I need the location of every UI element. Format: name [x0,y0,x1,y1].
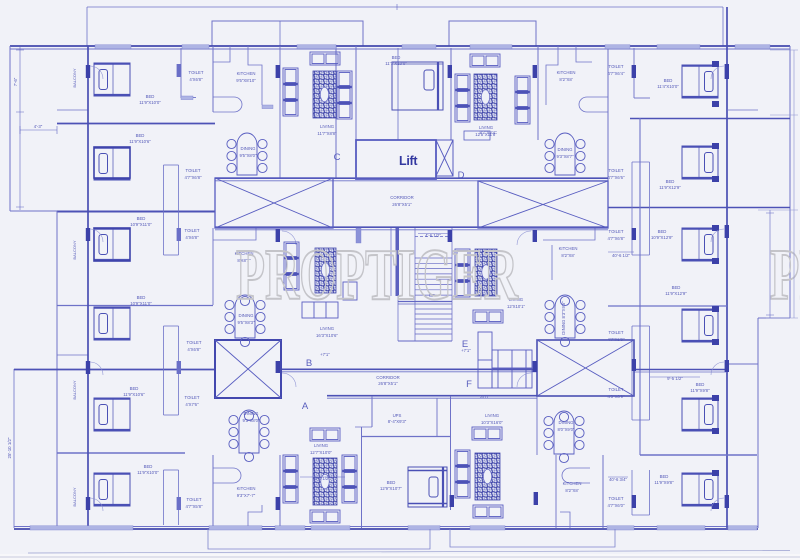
svg-text:CORRIDOR: CORRIDOR [376,375,399,380]
svg-text:9'5"X8'3": 9'5"X8'3" [237,320,255,325]
svg-text:TOILET: TOILET [186,168,201,173]
svg-text:16'3"X10'6": 16'3"X10'6" [316,333,338,338]
svg-text:11'9"X12'9": 11'9"X12'9" [665,291,687,296]
svg-text:D: D [458,170,465,181]
svg-text:TOILET: TOILET [185,228,200,233]
svg-text:4'X6'8": 4'X6'8" [185,235,199,240]
svg-text:BED: BED [136,133,145,138]
svg-text:BED: BED [130,386,139,391]
svg-text:11'9"X10'6": 11'9"X10'6" [123,392,145,397]
svg-text:4'X7'6": 4'X7'6" [185,402,199,407]
svg-text:4'3"X6'9": 4'3"X6'9" [607,394,625,399]
svg-text:40'-6 1/2": 40'-6 1/2" [612,253,631,258]
svg-text:+7'1": +7'1" [320,352,330,357]
svg-text:11'7"X8'8": 11'7"X8'8" [317,131,337,136]
svg-text:4'-3": 4'-3" [34,124,43,129]
svg-text:BED: BED [660,474,669,479]
svg-text:11'9"X10'6": 11'9"X10'6" [129,139,151,144]
svg-text:KITCHEN: KITCHEN [557,70,576,75]
svg-text:BED: BED [144,464,153,469]
svg-text:9'3"X8'0": 9'3"X8'0" [242,418,260,423]
svg-text:B: B [306,358,312,369]
svg-text:4'7"X6'4": 4'7"X6'4" [607,71,625,76]
svg-text:DINING 8'3"X9'5": DINING 8'3"X9'5" [561,301,566,335]
svg-text:8'2"X8': 8'2"X8' [561,253,574,258]
svg-text:4'7"X6'0": 4'7"X6'0" [607,503,625,508]
svg-text:12'7"X10'0": 12'7"X10'0" [310,450,332,455]
svg-text:8'2"X8': 8'2"X8' [565,488,578,493]
svg-text:11'7"X10'0": 11'7"X10'0" [385,61,407,66]
svg-text:40'-6 3/4": 40'-6 3/4" [609,477,628,482]
svg-text:11'4"X10'0": 11'4"X10'0" [657,84,679,89]
svg-text:LIVING: LIVING [320,124,335,129]
svg-text:F: F [466,379,472,390]
svg-text:4'7"X6'9": 4'7"X6'9" [607,337,625,342]
svg-text:4'X6'8": 4'X6'8" [187,347,201,352]
svg-text:TOILET: TOILET [609,229,624,234]
svg-text:BALCONY: BALCONY [72,68,77,87]
svg-text:8'2"X8': 8'2"X8' [559,77,572,82]
svg-text:9'-0 1/2": 9'-0 1/2" [314,476,330,481]
svg-text:UPS: UPS [393,413,402,418]
svg-text:PROPTIGER: PROPTIGER [236,234,519,315]
svg-text:DINING: DINING [557,147,573,152]
svg-text:9'5"X8'0": 9'5"X8'0" [239,153,257,158]
svg-text:LIVING: LIVING [485,413,500,418]
svg-text:BED: BED [696,382,705,387]
svg-text:BED: BED [137,295,146,300]
svg-text:25'-10 1/2": 25'-10 1/2" [7,437,12,458]
svg-text:TOILET: TOILET [609,496,624,501]
svg-text:26'8"X5'1": 26'8"X5'1" [392,202,412,207]
svg-text:LIVING: LIVING [320,326,335,331]
svg-text:TOILET: TOILET [609,168,624,173]
svg-text:DINING: DINING [558,420,574,425]
svg-text:PR: PR [770,234,800,315]
svg-text:4'7"X6'8": 4'7"X6'8" [607,236,625,241]
svg-text:LIVING: LIVING [314,443,329,448]
svg-text:STR: STR [480,394,489,399]
svg-text:A: A [302,401,309,412]
svg-text:BED: BED [672,285,681,290]
svg-text:BALCONY: BALCONY [72,380,77,399]
svg-text:TOILET: TOILET [185,395,200,400]
svg-text:10'3"X16'0": 10'3"X16'0" [481,420,503,425]
svg-text:9'5"X8'10": 9'5"X8'10" [236,78,256,83]
svg-text:BED: BED [664,78,673,83]
svg-text:TOILET: TOILET [609,330,624,335]
svg-text:11'9"X10'0": 11'9"X10'0" [137,470,159,475]
svg-text:10'9"X11'0": 10'9"X11'0" [130,301,152,306]
svg-text:11'9"X9'8": 11'9"X9'8" [654,480,674,485]
svg-text:BED: BED [137,216,146,221]
svg-text:BED: BED [387,480,396,485]
svg-text:4'7"X5'8": 4'7"X5'8" [185,504,203,509]
svg-text:TOILET: TOILET [187,497,202,502]
svg-text:KITCHEN: KITCHEN [237,486,256,491]
svg-text:TOILET: TOILET [189,70,204,75]
svg-text:TOILET: TOILET [609,387,624,392]
svg-text:Lift: Lift [399,154,418,168]
svg-text:KITCHEN: KITCHEN [563,481,582,486]
svg-text:8'7"X8'4": 8'7"X8'4" [479,130,497,135]
svg-text:BALCONY: BALCONY [72,240,77,259]
svg-text:BED: BED [666,179,675,184]
svg-text:BED: BED [658,229,667,234]
svg-text:7'-6": 7'-6" [13,77,18,86]
svg-text:DINING: DINING [240,146,256,151]
svg-text:TOILET: TOILET [187,340,202,345]
svg-text:DINING: DINING [243,411,259,416]
svg-text:12'9"X10'7": 12'9"X10'7" [380,486,402,491]
svg-text:BED: BED [392,55,401,60]
svg-text:10'9"X12'9": 10'9"X12'9" [651,235,673,240]
svg-text:11'9"X10'0": 11'9"X10'0" [139,100,161,105]
svg-text:CORRIDOR: CORRIDOR [390,195,413,200]
svg-text:KITCHEN: KITCHEN [559,246,578,251]
svg-text:BALCONY: BALCONY [72,487,77,506]
svg-text:4'7"X6'8": 4'7"X6'8" [184,175,202,180]
svg-text:+7'1": +7'1" [461,348,471,353]
svg-text:4'7"X6'6": 4'7"X6'6" [607,175,625,180]
svg-text:8'0"X9'0": 8'0"X9'0" [557,427,575,432]
svg-text:9'-5 1/2": 9'-5 1/2" [667,376,683,381]
svg-text:8'-4"X9'3": 8'-4"X9'3" [388,419,407,424]
svg-text:BED: BED [146,94,155,99]
svg-text:11'9"X9'8": 11'9"X9'8" [690,388,710,393]
svg-text:9'3"X7'-7": 9'3"X7'-7" [237,493,256,498]
svg-text:KITCHEN: KITCHEN [237,71,256,76]
svg-text:26'8"X5'1": 26'8"X5'1" [378,381,398,386]
svg-text:11'9"X12'9": 11'9"X12'9" [659,185,681,190]
svg-text:C: C [334,152,341,163]
svg-text:4'X6'8": 4'X6'8" [189,77,203,82]
svg-text:10'9"X11'0": 10'9"X11'0" [130,222,152,227]
svg-text:9'3"X8'7": 9'3"X8'7" [556,154,574,159]
svg-text:TOILET: TOILET [609,64,624,69]
